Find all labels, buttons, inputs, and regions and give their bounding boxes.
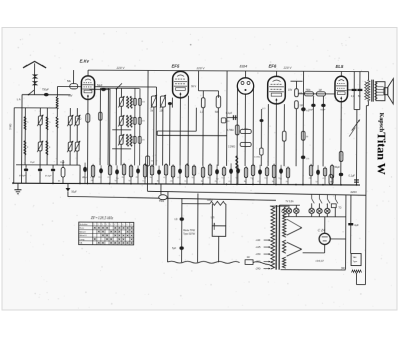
svg-text:1,2MΩ: 1,2MΩ [242,128,249,130]
svg-text:1: 1 [94,224,95,226]
svg-text:2M: 2M [309,178,312,180]
svg-text:Schalter: Schalter [80,223,88,226]
svg-text:1M: 1M [318,90,321,92]
svg-text:30 V: 30 V [191,85,196,88]
svg-text:50: 50 [280,179,282,181]
svg-text:50μF: 50μF [335,167,341,169]
svg-text:›220: ›220 [256,261,261,264]
svg-text:1M: 1M [299,104,302,107]
svg-text:220: 220 [142,120,145,122]
svg-text:Type: Type [353,261,359,263]
svg-text:220 V: 220 V [116,66,126,70]
svg-text:25p: 25p [116,178,119,180]
svg-text:EB4: EB4 [240,63,248,68]
svg-text:1k: 1k [172,178,174,180]
svg-text:47Ω: 47Ω [77,118,82,121]
svg-text:750pF: 750pF [42,89,49,92]
svg-text:6: 6 [114,224,115,226]
svg-text:25pF: 25pF [30,162,35,164]
svg-text:9: 9 [126,224,127,226]
svg-text:Mittel I: Mittel I [80,231,87,234]
svg-text:49,5pF: 49,5pF [45,175,52,177]
svg-text:1Ω: 1Ω [247,257,250,259]
svg-text:4,7MΩ: 4,7MΩ [227,130,234,132]
svg-text:Mittel II: Mittel II [80,234,87,237]
svg-text:7Ω: 7Ω [338,207,341,209]
svg-text:Titan W: Titan W [375,132,389,175]
svg-text:1,5k: 1,5k [306,158,310,160]
svg-text:TW1: TW1 [159,200,165,203]
svg-text:500: 500 [215,111,220,114]
svg-text:Type 537W: Type 537W [183,234,195,236]
svg-text:7: 7 [118,224,119,226]
svg-text:220 V: 220 V [196,66,206,70]
svg-text:560pF: 560pF [82,177,88,179]
svg-text:≈4×4,37: ≈4×4,37 [315,260,324,263]
svg-text:Lang: Lang [79,239,85,241]
svg-text:L.S: L.S [211,216,215,219]
svg-text:E.Kv: E.Kv [80,59,90,64]
svg-text:2M: 2M [91,180,94,182]
svg-text:750k: 750k [305,90,311,92]
svg-text:15V: 15V [288,89,293,92]
svg-text:EF6: EF6 [269,64,277,69]
svg-text:500Ω: 500Ω [207,199,213,202]
svg-text:220V: 220V [350,190,357,194]
svg-text:2,2nF: 2,2nF [90,177,96,179]
svg-text:›150: ›150 [256,253,261,256]
svg-text:220 V: 220 V [283,65,293,69]
svg-text:›125: ›125 [256,246,261,249]
svg-text:(W): (W) [341,267,345,270]
svg-text:49,5pF: 49,5pF [19,175,26,177]
svg-text:220: 220 [142,101,145,103]
svg-text:3: 3 [102,224,103,226]
svg-text:›110: ›110 [256,239,261,242]
svg-text:5: 5 [110,224,111,226]
svg-text:0,5MΩ: 0,5MΩ [254,157,260,159]
svg-text:4: 4 [106,224,107,226]
svg-text:2,2MΩ: 2,2MΩ [228,146,235,148]
svg-text:L.A: L.A [17,97,21,101]
svg-text:2M: 2M [330,181,333,183]
svg-text:Kurz: Kurz [80,227,85,230]
svg-text:EL5: EL5 [336,64,344,69]
svg-text:8: 8 [122,224,123,226]
svg-text:Kapsch: Kapsch [378,113,384,133]
svg-text:3 MΩ: 3 MΩ [9,124,12,130]
svg-text:7V 0,3A: 7V 0,3A [285,200,294,203]
svg-text:50pF: 50pF [97,84,103,87]
svg-text:C Z4: C Z4 [318,228,325,232]
svg-text:4μF: 4μF [354,224,359,227]
svg-text:1k: 1k [252,178,254,180]
svg-text:220: 220 [142,139,145,141]
svg-text:50: 50 [144,178,146,180]
svg-text:5μF: 5μF [172,248,177,250]
svg-text:50μF: 50μF [71,191,77,193]
svg-text:EF5: EF5 [172,64,180,69]
svg-text:2: 2 [98,224,99,226]
svg-text:25p: 25p [216,178,219,180]
svg-text:0,1μF: 0,1μF [349,175,356,178]
svg-text:Werte TFW: Werte TFW [183,229,196,232]
svg-text:›240: ›240 [256,268,261,271]
svg-text:70V: 70V [68,95,73,98]
svg-text:10: 10 [131,224,133,226]
